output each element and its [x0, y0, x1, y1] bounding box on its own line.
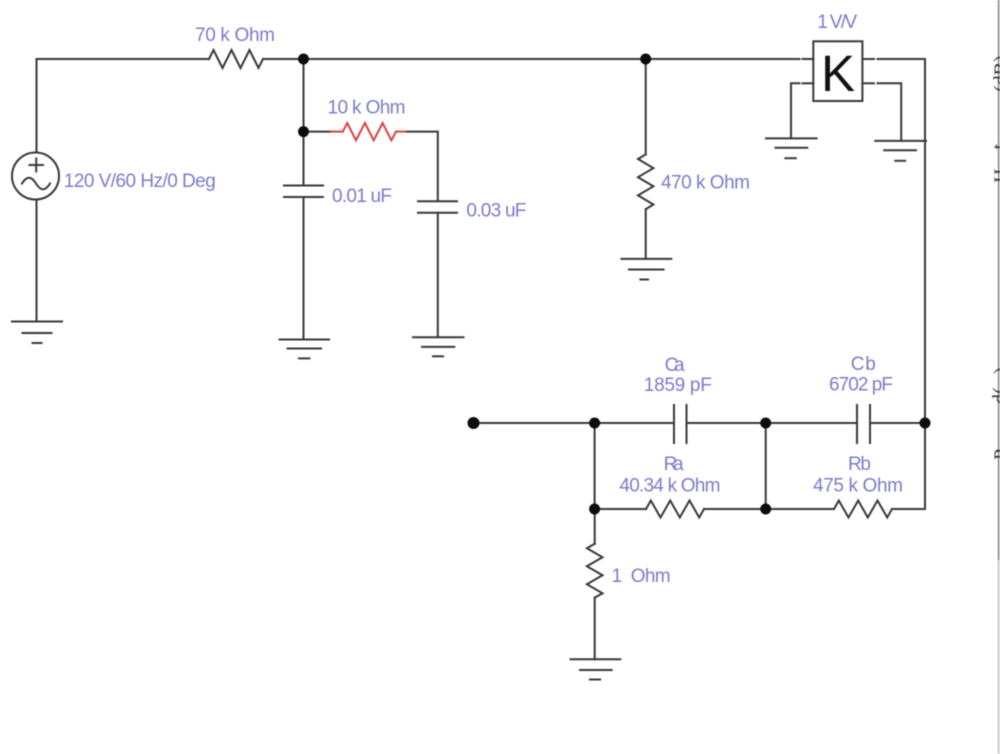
- svg-text:-t: -t: [989, 143, 1000, 156]
- ground K left: [766, 138, 817, 158]
- svg-text:Rb: Rb: [848, 454, 871, 475]
- wire K right pin2 to ground: [878, 83, 902, 141]
- svg-text:1 Ohm: 1 Ohm: [612, 566, 671, 587]
- resistor 1 Ohm: [587, 544, 603, 598]
- wire bottom rail mid: [704, 508, 834, 510]
- svg-text:K: K: [821, 45, 855, 102]
- node top rail 1: [589, 418, 600, 429]
- svg-text:0.03 uF: 0.03 uF: [466, 201, 526, 222]
- wire top-left horizontal: [37, 59, 210, 153]
- node axis label H-t (dB) rotated clipped fragments: [989, 55, 1000, 183]
- svg-text:0.01 uF: 0.01 uF: [332, 186, 392, 207]
- svg-text:1859 pF: 1859 pF: [644, 375, 712, 396]
- node bottom rail 2: [760, 504, 771, 515]
- capacitor 0.01 uF: [284, 186, 323, 198]
- wire K output pin stub right: [862, 58, 874, 60]
- resistor Rb: [834, 501, 892, 518]
- wire vertical between rails left: [594, 423, 596, 509]
- wire top rail to K box: [263, 58, 800, 60]
- node C: [298, 126, 309, 137]
- svg-text:1 V/V: 1 V/V: [817, 12, 857, 33]
- capacitor Ca: [674, 405, 687, 443]
- wire red resistor right to corner down: [406, 132, 438, 202]
- ground 0.01uF: [280, 340, 330, 359]
- ground K right: [875, 141, 926, 161]
- ground 0.03uF: [413, 337, 464, 356]
- wire 1 Ohm bottom: [594, 598, 596, 660]
- svg-text:Ca: Ca: [665, 355, 685, 376]
- ground 470k: [622, 259, 672, 280]
- node axis label lower rotated clipped fragments: [990, 367, 1000, 460]
- node top rail 3: [920, 418, 931, 429]
- wire 0.03uF bottom: [437, 213, 439, 338]
- wire bottom rail: [595, 508, 646, 510]
- svg-text:(dB): (dB): [991, 55, 1000, 92]
- axis line right edge: [998, 0, 1000, 754]
- op-amp block K box: [813, 41, 862, 101]
- resistor 70 k Ohm: [209, 50, 263, 68]
- svg-text:): ): [991, 367, 1000, 374]
- ground 1 Ohm: [571, 659, 621, 679]
- source plus sign: [30, 159, 44, 172]
- wire K right pin2 stub: [862, 82, 874, 84]
- svg-text:H: H: [991, 169, 1000, 183]
- svg-text:40.34 k Ohm: 40.34 k Ohm: [619, 476, 720, 497]
- wire bottom rail right: [892, 508, 925, 510]
- wire 1 Ohm top: [594, 509, 596, 544]
- wire 470k bottom: [645, 209, 647, 259]
- capacitor Cb: [857, 405, 870, 443]
- svg-text:475 k Ohm: 475 k Ohm: [813, 476, 903, 497]
- wire node A down: [303, 59, 305, 186]
- wire node B down to 470k: [645, 59, 647, 154]
- svg-text:120 V/60 Hz/0 Deg: 120 V/60 Hz/0 Deg: [64, 171, 216, 192]
- svg-text:470 k Ohm: 470 k Ohm: [661, 173, 750, 194]
- resistor 470 k Ohm: [638, 154, 653, 209]
- svg-text:d(: d(: [990, 387, 1000, 404]
- wire vertical between rails mid: [765, 423, 767, 509]
- wire red resistor left lead black part: [304, 131, 332, 133]
- ground source: [12, 322, 62, 344]
- node bottom rail 1: [589, 504, 600, 515]
- svg-text:Ra: Ra: [664, 454, 684, 475]
- wire K left pin2 stub: [803, 82, 814, 84]
- svg-text:70 k Ohm: 70 k Ohm: [195, 25, 275, 46]
- source V1 circle: [12, 153, 59, 200]
- wire source bottom: [36, 200, 38, 322]
- wire 0.01uF bottom: [303, 197, 305, 340]
- wire lower top rail: [479, 422, 674, 424]
- node B: [640, 54, 651, 65]
- wire K output right and down: [878, 59, 926, 509]
- capacitor 0.03 uF: [418, 201, 457, 212]
- wire K input pin stub: [803, 58, 814, 60]
- node top rail 2: [760, 418, 771, 429]
- wire lower top rail mid: [687, 422, 858, 424]
- wire K left pin2 to ground: [791, 83, 800, 138]
- svg-text:Cb: Cb: [851, 354, 876, 375]
- resistor Ra: [646, 501, 704, 518]
- node A: [298, 54, 309, 65]
- resistor 10 k Ohm red: [331, 123, 405, 140]
- svg-text:10 k Ohm: 10 k Ohm: [328, 98, 406, 119]
- node terminal open: [468, 417, 480, 429]
- svg-text:P: P: [991, 449, 1000, 460]
- wire lower top rail right: [870, 422, 925, 424]
- svg-text:6702 pF: 6702 pF: [829, 375, 893, 396]
- source sine wave: [22, 178, 50, 190]
